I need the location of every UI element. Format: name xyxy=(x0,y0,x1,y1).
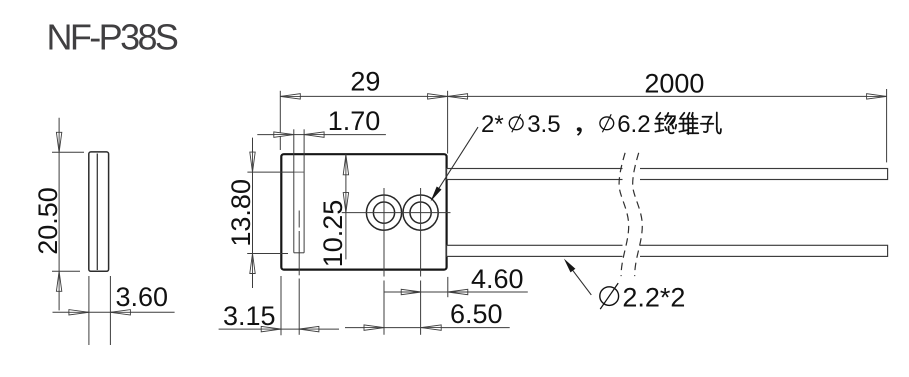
dim 3.60 left arrow xyxy=(69,310,89,315)
svg-text:3.15: 3.15 xyxy=(223,301,276,331)
hole callout text 2* xyxy=(481,111,504,138)
svg-text:13.80: 13.80 xyxy=(226,179,256,247)
hole 1 centerline extension xyxy=(383,281,385,335)
hole callout fullwidth comma xyxy=(577,127,582,136)
hanzi huo (spot-face) xyxy=(655,113,676,133)
dim 6.50 left arrow xyxy=(364,325,384,330)
dim 4.60 right extension line xyxy=(447,277,449,297)
svg-text:2000: 2000 xyxy=(644,69,704,99)
dim 1.70 left arrow xyxy=(274,132,294,137)
cable callout text 2.2*2 xyxy=(622,283,685,313)
side view outline xyxy=(89,152,109,271)
dim 3.60 right extension line xyxy=(109,276,111,345)
svg-text:10.25: 10.25 xyxy=(318,200,348,268)
dim 13.80 bottom arrow xyxy=(250,254,255,274)
hole callout text 6.2 xyxy=(617,111,650,138)
dim 4.60 text xyxy=(471,264,524,294)
cable callout leader arrow xyxy=(564,259,576,273)
dim 20.50 text xyxy=(33,187,63,255)
dim 2000 dimension line xyxy=(448,95,887,97)
svg-text:20.50: 20.50 xyxy=(33,187,63,255)
dim 29 dimension line xyxy=(280,95,447,97)
dim 10.25 bottom arrow xyxy=(343,193,348,213)
svg-text:29: 29 xyxy=(350,67,380,97)
dim 3.60 left extension line xyxy=(88,276,90,345)
dim 20.50 top arrow xyxy=(56,132,61,152)
slot centerline dash 2 xyxy=(298,231,300,275)
dim 29 left arrow xyxy=(280,94,300,99)
hole 2 inner circle xyxy=(410,202,431,223)
dim 6.50 text xyxy=(450,299,503,329)
hole callout leader arrow xyxy=(431,187,442,202)
dim 29 right arrow xyxy=(428,94,448,99)
holes horizontal centerline xyxy=(342,212,451,214)
dim 1.70 dimension line left tail xyxy=(257,134,294,136)
upper cable outline xyxy=(447,169,888,180)
dim 10.25 text xyxy=(318,200,348,268)
hole 2 centerline extension xyxy=(420,281,422,335)
dim 10.25 dimension line xyxy=(345,154,347,259)
cable break white-out xyxy=(623,145,641,285)
dim 2000 text xyxy=(644,69,704,99)
dim 3.15 left arrow xyxy=(261,326,281,331)
slot centerline extension xyxy=(298,279,300,335)
dim 2000 right arrow xyxy=(867,94,887,99)
dim 3.15 dimension line xyxy=(219,328,339,330)
dim 1.70 right arrow xyxy=(304,132,324,137)
dim 13.80 text xyxy=(226,179,256,247)
hole callout diameter symbol 2 xyxy=(600,114,614,132)
dim 3.15 text xyxy=(223,301,276,331)
dim 1.70 right tail xyxy=(304,134,386,136)
hanzi zhui (taper) xyxy=(679,113,698,134)
svg-text:2*: 2* xyxy=(481,111,504,138)
dim 13.80 bottom extension line xyxy=(247,253,288,255)
dim 13.80 top arrow xyxy=(250,152,255,172)
hole 1 vertical centerline xyxy=(383,188,385,277)
dim 2000 right extension line xyxy=(886,89,888,162)
dim 4.60 left arrow xyxy=(401,289,421,294)
dim 13.80 top extension line xyxy=(247,171,293,173)
svg-text:6.50: 6.50 xyxy=(450,299,503,329)
hole callout leader line xyxy=(439,127,478,188)
svg-text:1.70: 1.70 xyxy=(328,106,381,136)
slot right edge / 1.70 extension xyxy=(303,129,305,253)
svg-text:2.2*2: 2.2*2 xyxy=(622,283,685,313)
svg-text:3.60: 3.60 xyxy=(116,282,169,312)
dim 1.70 middle segment xyxy=(294,134,304,136)
dim 13.80 dimension line xyxy=(252,138,254,288)
dim 4.60 right arrow xyxy=(448,289,468,294)
title text NF-P38S xyxy=(47,17,178,58)
hole 1 outer circle xyxy=(366,195,401,230)
dim 4.60 dimension line xyxy=(384,291,528,293)
dim 2000 left arrow xyxy=(448,94,468,99)
dim 3.15 right arrow xyxy=(299,326,319,331)
hanzi kong (hole) xyxy=(701,113,721,134)
hole callout text 3.5 xyxy=(527,111,560,138)
dim 1.70 text xyxy=(328,106,381,136)
dim 10.25 top arrow xyxy=(343,155,348,175)
dim 6.50 dimension line xyxy=(345,327,510,329)
hole callout diameter symbol 1 xyxy=(509,114,523,132)
svg-text:6.2: 6.2 xyxy=(617,111,650,138)
dim 6.50 right arrow xyxy=(421,325,441,330)
dim 3.60 right arrow xyxy=(110,310,130,315)
dim 3.60 text xyxy=(116,282,169,312)
front view body outline xyxy=(281,154,446,269)
hole 1 inner circle xyxy=(373,202,394,223)
cable callout leader line xyxy=(571,268,591,295)
dim 20.50 dimension line xyxy=(58,118,60,311)
svg-text:4.60: 4.60 xyxy=(471,264,524,294)
hole 2 outer circle xyxy=(403,195,438,230)
cable callout diameter symbol xyxy=(600,283,619,309)
svg-text:3.5: 3.5 xyxy=(527,111,560,138)
dim 3.60 dimension line xyxy=(53,311,175,313)
dim 3.15 left extension line xyxy=(280,276,282,335)
svg-text:NF-P38S: NF-P38S xyxy=(47,17,178,58)
slot centerline dash 1 xyxy=(298,211,300,228)
cable break line right xyxy=(633,153,643,276)
side view inner edge xyxy=(96,154,98,271)
dim 20.50 bottom arrow xyxy=(56,271,61,291)
slot bottom edge xyxy=(294,252,304,254)
dim 29 / 2000 shared extension line xyxy=(447,91,449,154)
hole 2 vertical centerline xyxy=(420,188,422,277)
dim 29 text xyxy=(350,67,380,97)
slot left edge / 1.70 extension xyxy=(293,129,295,253)
dim 20.50 bottom extension line xyxy=(52,270,80,272)
cable break line left xyxy=(619,153,629,276)
lower cable outline xyxy=(447,245,888,256)
dim 20.50 top extension line xyxy=(52,151,84,153)
dim 29 left extension line xyxy=(279,91,281,150)
slot top edge xyxy=(294,171,304,173)
